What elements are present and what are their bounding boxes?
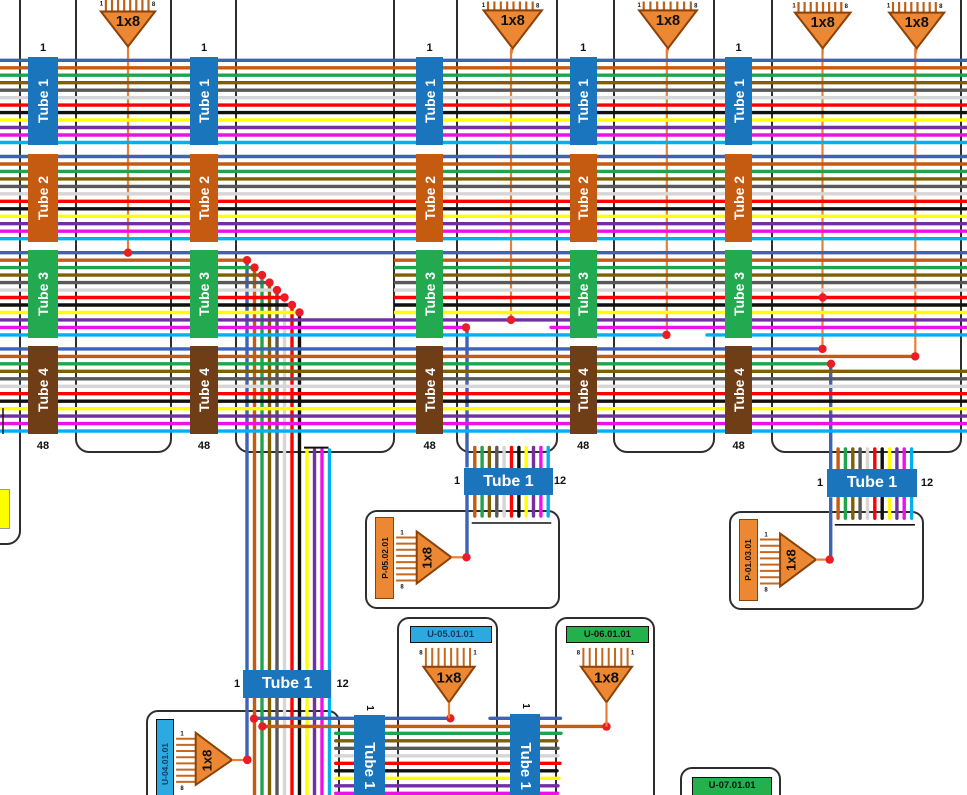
- svg-text:1x8: 1x8: [594, 670, 619, 687]
- svg-text:1: 1: [887, 4, 891, 10]
- svg-text:8: 8: [536, 4, 540, 10]
- svg-text:1x8: 1x8: [116, 14, 140, 30]
- svg-text:1x8: 1x8: [784, 549, 799, 571]
- svg-text:1x8: 1x8: [905, 15, 929, 31]
- svg-text:8: 8: [400, 585, 404, 591]
- svg-text:1: 1: [638, 3, 642, 9]
- svg-text:1: 1: [180, 732, 184, 738]
- svg-text:1: 1: [631, 650, 635, 656]
- svg-text:1x8: 1x8: [656, 13, 680, 29]
- svg-text:8: 8: [939, 4, 943, 10]
- svg-text:1x8: 1x8: [436, 670, 461, 687]
- svg-text:1: 1: [792, 4, 796, 10]
- svg-text:1x8: 1x8: [420, 547, 435, 569]
- svg-text:8: 8: [180, 786, 184, 792]
- svg-text:8: 8: [152, 2, 156, 8]
- svg-text:1: 1: [482, 3, 486, 9]
- svg-text:8: 8: [694, 4, 698, 10]
- svg-text:1: 1: [473, 650, 477, 656]
- svg-text:1x8: 1x8: [501, 13, 525, 29]
- svg-text:1: 1: [400, 531, 404, 537]
- svg-text:8: 8: [577, 650, 581, 656]
- svg-text:1x8: 1x8: [811, 15, 835, 31]
- svg-text:8: 8: [845, 4, 849, 10]
- svg-text:8: 8: [764, 588, 768, 594]
- svg-text:1x8: 1x8: [199, 750, 214, 772]
- svg-text:8: 8: [419, 650, 423, 656]
- svg-text:1: 1: [764, 533, 768, 539]
- svg-text:1: 1: [100, 2, 104, 8]
